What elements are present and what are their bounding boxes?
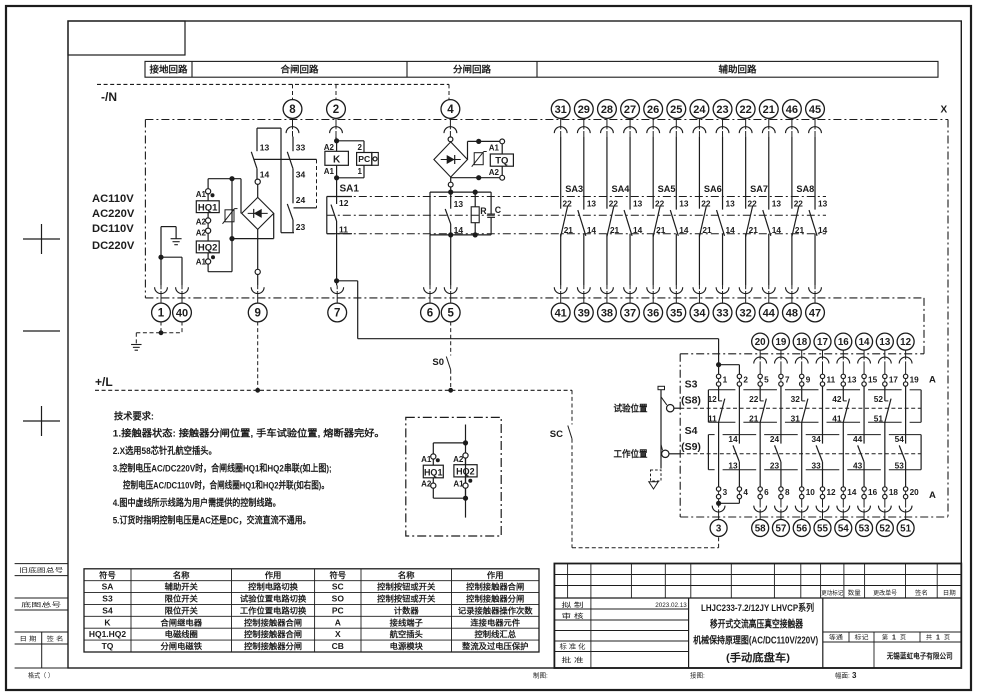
svg-text:25: 25 [670, 104, 682, 116]
svg-text:SA6: SA6 [704, 184, 722, 194]
svg-text:41: 41 [832, 413, 842, 423]
svg-text:14: 14 [679, 225, 689, 235]
svg-text:名称: 名称 [173, 570, 190, 580]
svg-text:21: 21 [749, 225, 759, 235]
svg-text:C: C [495, 205, 502, 215]
svg-text:A1: A1 [196, 257, 207, 266]
svg-text:S4: S4 [685, 425, 698, 437]
svg-text:34: 34 [693, 307, 706, 319]
svg-text:14: 14 [847, 488, 857, 497]
svg-text:SA4: SA4 [611, 184, 630, 194]
svg-text:工作位置电路切换: 工作位置电路切换 [240, 605, 307, 615]
svg-text:9: 9 [254, 308, 260, 320]
svg-text:14: 14 [633, 225, 643, 235]
svg-text:20: 20 [910, 488, 920, 497]
svg-text:合闸回路: 合闸回路 [281, 64, 320, 75]
svg-text:合闸继电器: 合闸继电器 [159, 617, 203, 627]
svg-text:审 核: 审 核 [562, 611, 585, 620]
svg-text:AC110V: AC110V [92, 193, 134, 205]
svg-text:26: 26 [647, 104, 659, 116]
svg-text:12: 12 [900, 337, 911, 348]
svg-text:43: 43 [853, 460, 863, 470]
svg-text:14: 14 [859, 337, 870, 348]
svg-text:13: 13 [847, 376, 857, 385]
svg-text:12: 12 [339, 198, 349, 208]
svg-text:SC: SC [332, 582, 344, 592]
svg-text:SO: SO [332, 594, 345, 604]
svg-text:22: 22 [701, 198, 711, 208]
svg-text:3: 3 [716, 524, 722, 535]
svg-text:1: 1 [158, 308, 165, 320]
svg-text:A2: A2 [453, 455, 464, 464]
svg-text:1: 1 [723, 376, 728, 385]
svg-text:控制按钮或开关: 控制按钮或开关 [377, 594, 435, 604]
svg-text:A1: A1 [421, 455, 432, 464]
svg-text:A1: A1 [324, 167, 335, 176]
svg-text:21: 21 [763, 104, 775, 116]
svg-text:符号: 符号 [330, 570, 347, 580]
svg-text:6: 6 [427, 308, 433, 320]
svg-text:9: 9 [806, 376, 811, 385]
svg-text:7: 7 [785, 376, 790, 385]
svg-text:33: 33 [811, 460, 821, 470]
svg-text:日期: 日期 [943, 589, 956, 597]
svg-text:3: 3 [723, 488, 728, 497]
svg-text:PC: PC [358, 154, 370, 164]
svg-text:底图总号: 底图总号 [21, 601, 61, 609]
svg-text:22: 22 [749, 394, 759, 404]
svg-text:53: 53 [895, 460, 905, 470]
svg-text:22: 22 [563, 198, 573, 208]
svg-text:拟 制: 拟 制 [562, 600, 585, 609]
svg-text:37: 37 [624, 307, 636, 319]
svg-text:A: A [335, 617, 341, 627]
svg-text:K: K [333, 154, 341, 165]
svg-text:CB: CB [332, 641, 344, 651]
svg-text:29: 29 [578, 104, 590, 116]
svg-text:22: 22 [794, 198, 804, 208]
svg-text:等通: 等通 [829, 633, 843, 641]
svg-text:16: 16 [838, 337, 849, 348]
svg-text:46: 46 [786, 104, 798, 116]
svg-text:31: 31 [791, 413, 801, 423]
svg-text:SA7: SA7 [750, 184, 768, 194]
svg-text:机械保持原理图(AC/DC110V/220V): 机械保持原理图(AC/DC110V/220V) [693, 634, 818, 647]
svg-text:控制接触器合闸: 控制接触器合闸 [244, 629, 302, 639]
svg-text:A2: A2 [196, 228, 207, 237]
svg-text:A1: A1 [196, 190, 207, 199]
svg-text:2: 2 [333, 104, 339, 116]
svg-text:共: 共 [926, 633, 932, 641]
svg-text:8: 8 [785, 488, 790, 497]
svg-text:14: 14 [726, 225, 736, 235]
svg-text:K: K [104, 617, 111, 627]
svg-text:54: 54 [838, 524, 849, 535]
svg-text:辅助回路: 辅助回路 [719, 64, 758, 75]
svg-text:13: 13 [772, 198, 782, 208]
svg-text:51: 51 [874, 413, 884, 423]
svg-text:13: 13 [633, 198, 643, 208]
svg-text:A2: A2 [421, 480, 432, 489]
svg-text:18: 18 [889, 488, 899, 497]
svg-text:2: 2 [743, 376, 748, 385]
svg-text:SA5: SA5 [658, 184, 676, 194]
svg-text:42: 42 [832, 394, 842, 404]
svg-text:6: 6 [764, 488, 769, 497]
svg-text:14: 14 [587, 225, 597, 235]
svg-text:21: 21 [702, 225, 712, 235]
svg-text:TQ: TQ [495, 156, 508, 167]
svg-text:1: 1 [892, 635, 896, 642]
svg-text:A: A [929, 490, 936, 501]
svg-text:格式（ ）: 格式（ ） [28, 671, 54, 680]
svg-text:54: 54 [895, 434, 905, 444]
svg-text:13: 13 [726, 198, 736, 208]
svg-text:名称: 名称 [398, 570, 415, 580]
svg-text:试验位置: 试验位置 [614, 403, 648, 414]
svg-text:控制电路切换: 控制电路切换 [248, 582, 299, 592]
svg-text:电源模块: 电源模块 [390, 641, 424, 651]
svg-text:53: 53 [859, 524, 870, 535]
svg-text:(手动底盘车): (手动底盘车) [726, 651, 790, 664]
svg-text:SA8: SA8 [796, 184, 814, 194]
svg-text:标 准 化: 标 准 化 [560, 642, 587, 651]
svg-text:21: 21 [656, 225, 666, 235]
svg-text:45: 45 [809, 104, 821, 116]
svg-text:39: 39 [578, 307, 590, 319]
svg-text:A1: A1 [489, 144, 500, 153]
svg-text:工作位置: 工作位置 [614, 448, 648, 459]
svg-text:24: 24 [770, 434, 780, 444]
svg-text:(S9): (S9) [681, 441, 701, 453]
svg-text:40: 40 [176, 307, 188, 319]
svg-text:11: 11 [827, 376, 836, 385]
svg-text:5: 5 [447, 308, 454, 320]
svg-text:14: 14 [772, 225, 782, 235]
svg-text:19: 19 [910, 376, 920, 385]
svg-text:TQ: TQ [102, 641, 114, 651]
svg-text:辅助开关: 辅助开关 [165, 582, 198, 592]
svg-text:22: 22 [747, 198, 757, 208]
svg-text:13: 13 [818, 198, 828, 208]
svg-text:标记: 标记 [855, 633, 869, 641]
svg-text:23: 23 [296, 222, 306, 232]
svg-text:4: 4 [447, 104, 454, 116]
svg-text:35: 35 [670, 307, 682, 319]
svg-text:2: 2 [358, 143, 363, 152]
svg-text:HQ1: HQ1 [198, 202, 218, 213]
svg-text:20: 20 [755, 337, 766, 348]
svg-text:接地回路: 接地回路 [150, 64, 189, 75]
svg-text:44: 44 [853, 434, 863, 444]
svg-text:S3: S3 [685, 379, 698, 391]
svg-text:更改单号: 更改单号 [873, 589, 897, 597]
svg-text:控制接触器分闸: 控制接触器分闸 [466, 594, 524, 604]
svg-text:21: 21 [795, 225, 805, 235]
svg-text:HQ1.HQ2: HQ1.HQ2 [89, 629, 127, 639]
svg-text:试验位置电路切换: 试验位置电路切换 [240, 594, 307, 604]
svg-text:数量: 数量 [848, 589, 861, 597]
svg-text:19: 19 [775, 337, 786, 348]
svg-text:DC220V: DC220V [92, 240, 135, 252]
svg-text:47: 47 [809, 307, 821, 319]
svg-text:2023.02.13: 2023.02.13 [655, 602, 687, 609]
svg-text:控制电压AC/DC110V时，合闸线圈HQ1和HQ2并联(如: 控制电压AC/DC110V时，合闸线圈HQ1和HQ2并联(如右图)。 [123, 480, 329, 492]
svg-text:(S8): (S8) [681, 395, 701, 407]
svg-text:52: 52 [879, 524, 890, 535]
svg-text:33: 33 [716, 307, 728, 319]
svg-text:14: 14 [818, 225, 828, 235]
svg-text:34: 34 [296, 170, 306, 180]
svg-text:16: 16 [868, 488, 878, 497]
svg-text:21: 21 [749, 413, 759, 423]
svg-text:SC: SC [550, 429, 563, 440]
svg-text:2.X选用58芯针孔航空插头。: 2.X选用58芯针孔航空插头。 [113, 445, 217, 457]
svg-text:技术要求:: 技术要求: [114, 411, 154, 423]
svg-text:11: 11 [708, 413, 717, 423]
svg-text:A1: A1 [453, 480, 464, 489]
svg-text:航空插头: 航空插头 [390, 629, 423, 639]
svg-text:32: 32 [740, 307, 752, 319]
svg-text:签名: 签名 [915, 589, 928, 597]
svg-text:整流及过电压保护: 整流及过电压保护 [461, 641, 528, 651]
svg-text:控制接触器合闸: 控制接触器合闸 [244, 617, 302, 627]
svg-text:8: 8 [289, 104, 296, 116]
svg-text:13: 13 [587, 198, 597, 208]
svg-text:32: 32 [791, 394, 801, 404]
svg-text:4.图中虚线所示线路为用户需提供的控制线路。: 4.图中虚线所示线路为用户需提供的控制线路。 [113, 497, 281, 509]
svg-text:17: 17 [889, 376, 899, 385]
svg-text:批 准: 批 准 [562, 655, 585, 664]
svg-text:无锡蓝虹电子有限公司: 无锡蓝虹电子有限公司 [886, 650, 953, 660]
svg-text:HQ1: HQ1 [424, 467, 443, 477]
svg-text:PC: PC [332, 605, 344, 615]
svg-text:5.订货时指明控制电压是AC还是DC，交流直流不通用。: 5.订货时指明控制电压是AC还是DC，交流直流不通用。 [113, 515, 311, 527]
svg-text:作用: 作用 [265, 570, 282, 580]
svg-text:+/L: +/L [95, 375, 113, 389]
svg-text:10: 10 [806, 488, 816, 497]
svg-text:R: R [480, 206, 487, 216]
svg-text:11: 11 [339, 224, 348, 234]
svg-text:A2: A2 [324, 143, 335, 152]
svg-text:符号: 符号 [99, 570, 116, 580]
svg-text:1: 1 [936, 635, 940, 642]
svg-text:控制接触器分闸: 控制接触器分闸 [244, 641, 302, 651]
svg-text:页: 页 [900, 634, 906, 641]
svg-text:签 名: 签 名 [47, 635, 64, 643]
svg-text:移开式交流高压真空接触器: 移开式交流高压真空接触器 [710, 617, 804, 630]
svg-text:连接电器元件: 连接电器元件 [470, 617, 520, 627]
svg-text:A2: A2 [489, 168, 500, 177]
svg-text:13: 13 [879, 337, 890, 348]
svg-text:51: 51 [900, 524, 911, 535]
svg-text:更动标记: 更动标记 [821, 589, 843, 597]
svg-text:A2: A2 [196, 217, 207, 226]
svg-text:接图:: 接图: [690, 671, 705, 680]
svg-text:A: A [929, 375, 936, 386]
svg-text:27: 27 [624, 104, 636, 116]
svg-text:22: 22 [740, 104, 752, 116]
svg-text:S4: S4 [102, 605, 113, 615]
svg-text:控制线汇总: 控制线汇总 [475, 629, 517, 639]
svg-text:3: 3 [852, 671, 857, 680]
svg-text:5: 5 [764, 376, 769, 385]
svg-text:1.接触器状态: 接触器分闸位置, 手车试验位置, 熔断器完: 1.接触器状态: 接触器分闸位置, 手车试验位置, 熔断器完好。 [113, 428, 385, 440]
svg-text:21: 21 [610, 225, 620, 235]
svg-text:日 期: 日 期 [20, 635, 37, 643]
svg-text:分闸电磁铁: 分闸电磁铁 [161, 641, 203, 651]
svg-text:3.控制电压AC/DC220V时，合闸线圈HQ1和HQ2串联: 3.控制电压AC/DC220V时，合闸线圈HQ1和HQ2串联(如上图); [113, 462, 332, 474]
svg-text:14: 14 [260, 170, 270, 180]
svg-text:22: 22 [609, 198, 619, 208]
svg-text:15: 15 [868, 376, 878, 385]
svg-text:21: 21 [564, 225, 574, 235]
svg-text:58: 58 [755, 524, 766, 535]
svg-text:23: 23 [716, 104, 728, 116]
svg-text:接线端子: 接线端子 [390, 617, 423, 627]
svg-text:S0: S0 [432, 357, 444, 368]
svg-text:1: 1 [358, 167, 363, 176]
svg-text:计数器: 计数器 [394, 605, 420, 615]
svg-text:4: 4 [743, 488, 748, 497]
svg-text:-/N: -/N [101, 90, 117, 104]
svg-text:记录接触器操作次数: 记录接触器操作次数 [458, 605, 534, 615]
svg-text:33: 33 [296, 142, 306, 152]
svg-text:41: 41 [555, 307, 567, 319]
svg-text:48: 48 [786, 307, 798, 319]
svg-text:制图:: 制图: [533, 671, 548, 680]
svg-text:HQ2: HQ2 [456, 467, 475, 477]
svg-text:AC220V: AC220V [92, 208, 135, 220]
svg-text:X: X [335, 629, 341, 639]
svg-text:X: X [941, 105, 948, 116]
svg-text:13: 13 [260, 142, 270, 152]
svg-text:38: 38 [601, 307, 613, 319]
svg-text:24: 24 [296, 195, 306, 205]
svg-text:23: 23 [770, 460, 780, 470]
svg-text:13: 13 [454, 199, 464, 209]
svg-text:57: 57 [775, 524, 786, 535]
svg-text:28: 28 [601, 104, 613, 116]
svg-text:页: 页 [944, 634, 950, 641]
svg-text:7: 7 [334, 308, 340, 320]
svg-text:36: 36 [647, 307, 659, 319]
svg-text:52: 52 [874, 394, 884, 404]
svg-text:旧底图总号: 旧底图总号 [19, 566, 63, 574]
svg-text:13: 13 [728, 460, 738, 470]
svg-text:12: 12 [827, 488, 837, 497]
svg-text:SA3: SA3 [565, 184, 583, 194]
svg-text:55: 55 [817, 524, 828, 535]
svg-text:56: 56 [796, 524, 807, 535]
svg-text:第: 第 [882, 633, 888, 641]
svg-text:18: 18 [796, 337, 807, 348]
svg-text:34: 34 [811, 434, 821, 444]
svg-text:控制接触器合闸: 控制接触器合闸 [466, 582, 524, 592]
svg-text:17: 17 [817, 337, 828, 348]
svg-text:LHJC233-7.2/12JY LHVCP系列: LHJC233-7.2/12JY LHVCP系列 [701, 602, 814, 614]
svg-text:24: 24 [693, 104, 706, 116]
svg-text:限位开关: 限位开关 [165, 605, 198, 615]
svg-text:SA: SA [102, 582, 114, 592]
svg-text:22: 22 [655, 198, 665, 208]
svg-text:作用: 作用 [487, 570, 504, 580]
svg-text:12: 12 [708, 394, 718, 404]
svg-text:31: 31 [555, 104, 567, 116]
svg-text:幅面:: 幅面: [835, 671, 850, 680]
svg-text:HQ2: HQ2 [198, 243, 218, 254]
svg-text:S3: S3 [102, 594, 113, 604]
svg-text:DC110V: DC110V [92, 223, 134, 235]
svg-text:14: 14 [728, 434, 738, 444]
svg-text:SA1: SA1 [340, 184, 360, 195]
svg-text:电磁线圈: 电磁线圈 [165, 629, 198, 639]
svg-text:控制按钮或开关: 控制按钮或开关 [377, 582, 435, 592]
svg-text:限位开关: 限位开关 [165, 594, 198, 604]
svg-text:13: 13 [679, 198, 689, 208]
svg-text:44: 44 [763, 307, 776, 319]
svg-text:分闸回路: 分闸回路 [453, 64, 492, 75]
